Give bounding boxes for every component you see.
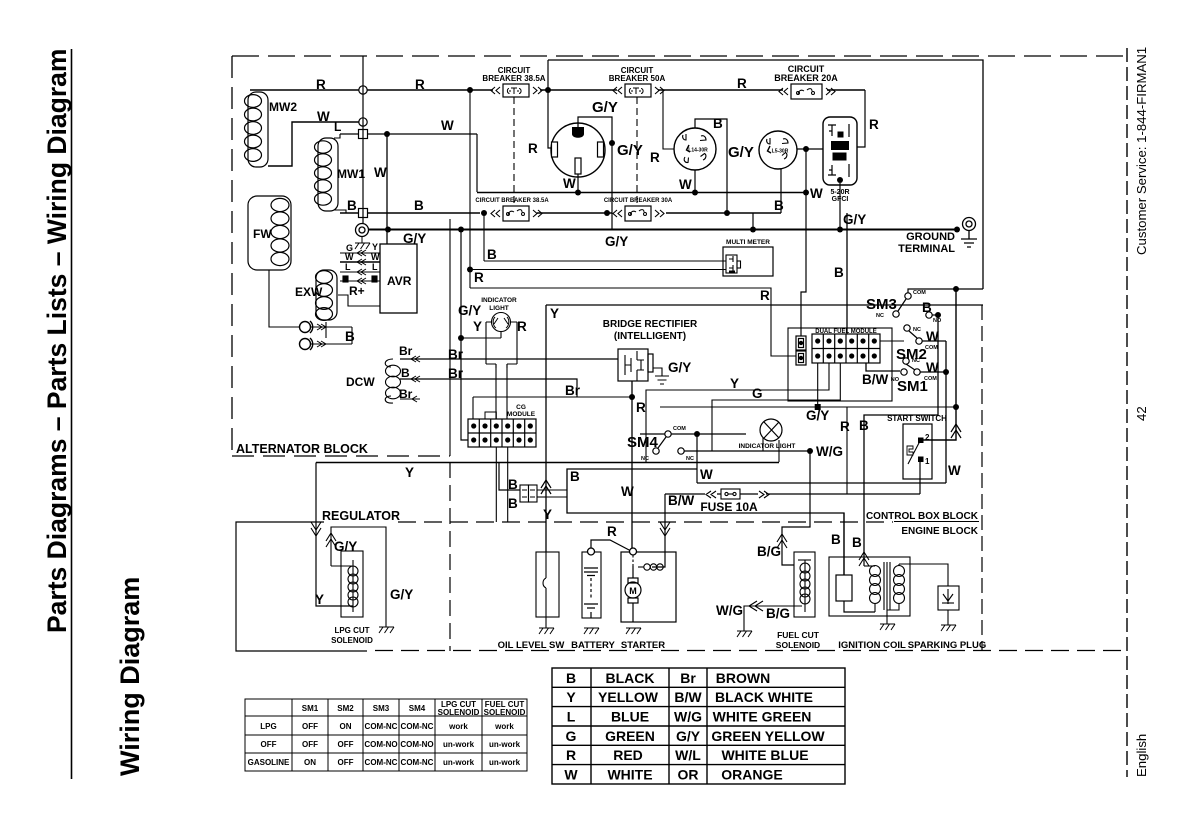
svg-text:GREEN YELLOW: GREEN YELLOW — [711, 728, 825, 744]
outlet L14-30R body — [674, 128, 716, 170]
outlet L5-30R body — [759, 131, 797, 169]
legend letters col2 — [674, 670, 702, 783]
legend table grid — [552, 668, 845, 784]
svg-text:ALTERNATOR BLOCK: ALTERNATOR BLOCK — [236, 442, 368, 456]
right sidebar page number — [1134, 406, 1149, 421]
svg-text:SM2: SM2 — [337, 704, 354, 713]
svg-text:W: W — [441, 118, 454, 133]
fuel cut solenoid coil — [798, 560, 811, 612]
svg-text:G/Y: G/Y — [403, 231, 426, 246]
wire W bus — [477, 192, 806, 194]
wire Y left drop — [315, 463, 317, 600]
chevron bw down — [660, 522, 670, 536]
svg-text:CONTROL BOX BLOCK: CONTROL BOX BLOCK — [866, 511, 979, 522]
chevron wg2 — [749, 601, 763, 611]
junction dot gy5 — [954, 227, 960, 233]
svg-text:YELLOW: YELLOW — [598, 689, 659, 705]
wire R drop from R bus — [469, 90, 471, 288]
svg-text:SM4: SM4 — [409, 704, 426, 713]
fuel cut solenoid box — [794, 552, 815, 617]
svg-text:BREAKER 20A: BREAKER 20A — [774, 73, 838, 83]
AVR pin row W/W — [340, 259, 380, 265]
frame ground symbol — [355, 236, 370, 249]
wire R drop (df right) — [846, 407, 848, 494]
svg-text:COM: COM — [925, 345, 938, 351]
LPG solenoid box — [341, 551, 363, 617]
left sidebar title — [42, 49, 72, 633]
ground symbol battery — [584, 628, 599, 634]
wire SM1 COM to W column — [920, 371, 946, 373]
svg-text:W: W — [564, 767, 578, 783]
svg-text:RED: RED — [613, 747, 643, 763]
svg-text:Y: Y — [372, 242, 378, 252]
wire brush1 stub with chevron — [311, 324, 352, 330]
svg-text:B: B — [713, 116, 723, 131]
junction dot w sm1 — [943, 369, 949, 375]
wire G/Y bus — [368, 229, 957, 231]
ground symbol oil — [539, 628, 554, 634]
svg-text:B: B — [508, 477, 518, 492]
wire ign resistor — [844, 513, 875, 612]
svg-text:GROUND: GROUND — [906, 231, 955, 243]
svg-text:42: 42 — [1134, 406, 1149, 421]
svg-text:B: B — [345, 329, 355, 344]
wire SM3 COM up — [908, 289, 983, 293]
svg-text:LPG CUT: LPG CUT — [334, 626, 369, 635]
wire G/Y from dual fuel — [817, 363, 819, 407]
wire W horizontal to W column — [697, 482, 946, 484]
wire CG bottom drop 2 — [507, 447, 509, 522]
battery cells — [584, 568, 598, 618]
junction dot gy1 — [385, 227, 391, 233]
junction dot ss1 — [953, 286, 959, 292]
wire W MW2 — [268, 122, 359, 166]
wire R to L14-30R — [663, 90, 674, 149]
wire G/Y from GFCI — [839, 183, 841, 229]
wire Br to bridge R node — [473, 396, 632, 398]
svg-text:L14-30R: L14-30R — [688, 148, 708, 154]
junction dot gy4 — [837, 227, 843, 233]
svg-text:Y: Y — [730, 376, 739, 391]
control box label underline — [894, 521, 979, 523]
frame ground circle — [356, 224, 369, 237]
svg-text:G/Y: G/Y — [592, 99, 618, 116]
svg-text:Customer Service: 1-844-FIRMAN: Customer Service: 1-844-FIRMAN1 — [1134, 47, 1149, 255]
ground terminal symbol — [961, 218, 977, 248]
svg-text:B: B — [401, 366, 410, 380]
wire R top loop — [548, 60, 983, 289]
svg-text:G/Y: G/Y — [728, 144, 754, 161]
wire MW1 bottom stub — [334, 210, 346, 213]
wire Y horizontal long — [316, 462, 779, 464]
svg-text:G: G — [566, 728, 577, 744]
right sidebar customer service text — [1134, 47, 1149, 255]
outlet 14-50R bottom slot — [575, 158, 581, 174]
junction dot b bus mid — [604, 210, 610, 216]
outlet 14-50R left slot — [552, 142, 558, 157]
svg-text:GREEN: GREEN — [605, 728, 655, 744]
svg-text:R: R — [474, 270, 484, 285]
junction dot b sm3 — [935, 312, 941, 318]
right sidebar dashed rule — [1126, 48, 1128, 777]
vertical main node column — [362, 56, 364, 223]
svg-text:Y: Y — [473, 319, 482, 334]
legend letters col1 — [564, 670, 578, 783]
svg-text:BATTERY: BATTERY — [571, 640, 615, 651]
wire R bridge to starter — [631, 381, 633, 552]
svg-text:G/Y: G/Y — [334, 539, 357, 554]
multimeter box — [723, 247, 773, 276]
GFCI bottom pin — [837, 177, 843, 183]
svg-text:Parts Diagrams – Parts Lists –: Parts Diagrams – Parts Lists – Wiring Di… — [42, 49, 72, 633]
svg-text:Y: Y — [550, 306, 559, 321]
svg-text:R: R — [760, 288, 770, 303]
wire IL1 tap — [461, 337, 501, 339]
svg-text:W/G: W/G — [674, 709, 702, 725]
engine block bottom dashed border — [375, 650, 1126, 652]
svg-text:G/Y: G/Y — [806, 408, 829, 423]
svg-text:FUSE 10A: FUSE 10A — [700, 500, 758, 514]
starter terminal — [630, 548, 637, 555]
ignition coil box — [829, 557, 910, 616]
CG module pins — [471, 423, 533, 442]
ground symbol wg — [737, 631, 752, 637]
svg-text:INDICATOR: INDICATOR — [481, 297, 517, 304]
junction dot r drop mid — [467, 267, 473, 273]
control box block dashed border — [398, 521, 893, 523]
wire B/W from dual fuel — [866, 363, 900, 371]
svg-text:ORANGE: ORANGE — [721, 767, 782, 783]
SM table header — [302, 700, 526, 717]
svg-text:W: W — [810, 186, 823, 201]
svg-text:NC: NC — [641, 456, 649, 462]
wire L row — [340, 133, 477, 135]
svg-text:FW: FW — [253, 227, 272, 241]
circuit breaker CB3 20A — [779, 84, 835, 99]
svg-text:OFF: OFF — [302, 722, 318, 731]
coil MW1 — [315, 138, 339, 211]
svg-text:B/W: B/W — [668, 493, 695, 508]
svg-text:B: B — [834, 265, 844, 280]
svg-text:W/G: W/G — [716, 603, 743, 618]
svg-text:Y: Y — [315, 592, 324, 607]
svg-text:B: B — [487, 247, 497, 262]
wire R to dual fuel module — [470, 288, 796, 356]
svg-text:R: R — [869, 117, 879, 132]
svg-text:COM: COM — [673, 426, 686, 432]
svg-text:GASOLINE: GASOLINE — [248, 758, 290, 767]
svg-text:W: W — [679, 177, 692, 192]
svg-text:Y: Y — [566, 689, 576, 705]
svg-text:Wiring Diagram: Wiring Diagram — [115, 577, 145, 776]
svg-text:B/G: B/G — [757, 544, 781, 559]
bridge rectifier U1 — [618, 349, 653, 381]
brush ring 1 — [300, 321, 313, 333]
sparking plug box — [938, 586, 959, 610]
svg-text:Y: Y — [405, 465, 414, 480]
wire L5-30R to GFCI — [797, 148, 824, 150]
svg-text:NC: NC — [912, 358, 920, 364]
wire plug ground — [947, 610, 949, 625]
dual fuel module connector — [812, 334, 880, 363]
legend names col2 — [711, 670, 825, 783]
oil level switch contact — [543, 552, 546, 628]
wire B snake — [567, 469, 844, 575]
fuse chevrons — [706, 491, 769, 498]
wire G/Y lpg loop — [331, 527, 386, 627]
start switch terminal 1 — [918, 457, 924, 463]
starter box — [621, 552, 676, 622]
wire brush2 stub with chevron — [311, 341, 352, 347]
wire W from L14-30R — [694, 170, 696, 192]
svg-text:R: R — [737, 76, 747, 91]
svg-text:B: B — [414, 198, 424, 213]
wire SM4 COM rail — [640, 433, 746, 435]
wire IL2 left leg — [762, 438, 764, 451]
wire R to GFCI — [857, 90, 865, 147]
svg-text:B: B — [859, 418, 869, 433]
svg-text:BREAKER 38.5A: BREAKER 38.5A — [482, 74, 545, 83]
svg-text:BLACK WHITE: BLACK WHITE — [715, 689, 813, 705]
svg-text:OFF: OFF — [338, 758, 354, 767]
junction dot w-l1430 — [692, 190, 698, 196]
oil level switch box — [536, 552, 559, 617]
GFCI center pins — [838, 132, 844, 138]
svg-text:W: W — [563, 176, 576, 191]
svg-text:R: R — [840, 419, 850, 434]
outlet L5-30R slots — [767, 138, 788, 159]
junction dot bridge R — [629, 394, 635, 400]
sparking plug electrode — [942, 589, 954, 604]
ground symbol bridge — [655, 376, 669, 384]
indicator light IL2 — [760, 419, 782, 441]
svg-text:un-work: un-work — [443, 758, 475, 767]
svg-text:BREAKER 50A: BREAKER 50A — [609, 74, 666, 83]
svg-text:B/G: B/G — [766, 606, 790, 621]
SM table grid — [245, 699, 527, 771]
junction dot ss2 — [953, 404, 959, 410]
multimeter connector — [726, 255, 741, 273]
SM table row GASOLINE — [248, 758, 521, 767]
battery box — [582, 552, 601, 618]
wire B drop from B bus — [483, 213, 485, 261]
wire W down from L5-30R junction — [801, 149, 806, 336]
wire SM4 com drop — [696, 434, 698, 483]
svg-text:SM1: SM1 — [302, 704, 319, 713]
junction dot r drop top — [467, 87, 473, 93]
svg-text:B: B — [508, 496, 518, 511]
svg-text:1: 1 — [925, 457, 930, 466]
svg-text:CIRCUIT BREAKER 38.5A: CIRCUIT BREAKER 38.5A — [475, 198, 549, 204]
svg-text:CIRCUIT BREAKER 30A: CIRCUIT BREAKER 30A — [604, 198, 673, 204]
svg-text:TERMINAL: TERMINAL — [898, 243, 955, 255]
svg-text:DCW: DCW — [346, 375, 375, 389]
left sidebar subtitle — [115, 577, 145, 776]
wire secondary to plug — [899, 564, 948, 586]
ground symbol plug — [941, 625, 956, 631]
CG module top jog — [485, 412, 496, 419]
switch SM4 — [653, 431, 684, 454]
wire G/Y bridge ground — [653, 368, 662, 376]
start switch key glyph — [907, 446, 913, 455]
svg-text:NC: NC — [913, 327, 921, 333]
svg-text:B: B — [852, 535, 862, 550]
chevron y up — [541, 480, 551, 494]
svg-text:STARTER: STARTER — [621, 640, 665, 651]
svg-text:WHITE BLUE: WHITE BLUE — [721, 747, 808, 763]
svg-text:R: R — [607, 524, 617, 539]
svg-text:B: B — [831, 532, 841, 547]
wire SM2 COM to W column — [922, 340, 946, 342]
svg-text:G/Y: G/Y — [668, 360, 691, 375]
wire W/G down — [782, 451, 810, 565]
svg-text:REGULATOR: REGULATOR — [322, 509, 400, 523]
indicator light IL1 — [486, 313, 517, 369]
wire EXW bottom to brush2 column — [325, 322, 327, 338]
svg-text:English: English — [1134, 734, 1149, 777]
svg-text:L: L — [372, 262, 378, 272]
svg-text:BLUE: BLUE — [611, 709, 649, 725]
GFCI test button — [831, 141, 849, 150]
svg-text:W: W — [317, 109, 330, 124]
svg-text:R: R — [650, 150, 660, 165]
wire B DCW mid — [400, 376, 577, 397]
svg-text:W: W — [948, 463, 961, 478]
wire W column down — [945, 341, 947, 483]
node circle R — [359, 86, 367, 94]
svg-text:R: R — [415, 77, 425, 92]
wire start switch t1 — [919, 462, 921, 494]
junction square gy df — [815, 404, 821, 410]
wire Y from dual fuel — [646, 363, 829, 462]
wire b block drop — [449, 219, 451, 456]
dual fuel left connector — [796, 336, 806, 365]
junction dot w1450 — [575, 190, 581, 196]
svg-text:SM3: SM3 — [373, 704, 390, 713]
wire B bus — [340, 212, 781, 214]
wire B to multimeter — [484, 260, 726, 262]
svg-text:FUEL CUT: FUEL CUT — [777, 630, 820, 640]
wire R+ to AVR — [338, 295, 380, 306]
wire brush taps joining AVR R+ — [351, 327, 353, 344]
svg-text:COM: COM — [913, 290, 926, 296]
left sidebar rule — [71, 49, 73, 779]
battery terminal — [588, 548, 595, 555]
AVR pin row L/L — [340, 269, 380, 275]
junction dot b bus l1430 — [724, 210, 730, 216]
alternator block bottom dashed border — [232, 455, 450, 457]
svg-text:W: W — [371, 252, 380, 262]
svg-text:CG: CG — [516, 404, 526, 411]
wire B conn top — [499, 462, 520, 490]
svg-text:W: W — [345, 252, 354, 262]
ignition primary coil — [864, 566, 881, 613]
svg-text:R+: R+ — [349, 284, 365, 298]
diagram top dashed border — [232, 55, 1126, 57]
svg-text:WHITE GREEN: WHITE GREEN — [713, 709, 812, 725]
coil FW — [248, 196, 291, 270]
junction dot sm4 — [694, 431, 700, 437]
wire Br drop to CG pin — [472, 397, 474, 425]
wire ign ground — [886, 610, 888, 624]
svg-text:B/W: B/W — [862, 372, 889, 387]
outlet L14-30R slots — [683, 134, 706, 163]
wire G from dual fuel — [712, 363, 840, 451]
svg-text:BLACK: BLACK — [606, 670, 655, 686]
wire B from L14-30R — [695, 119, 727, 213]
svg-text:COM-NC: COM-NC — [401, 758, 434, 767]
AVR box — [380, 244, 417, 313]
svg-text:NC: NC — [876, 313, 884, 319]
junction dot gy2 — [458, 227, 464, 233]
ground symbol starter — [626, 628, 641, 634]
AVR pin row G/Y — [340, 250, 380, 256]
svg-text:Br: Br — [565, 383, 581, 398]
svg-text:Br: Br — [399, 344, 413, 358]
circuit breaker CB4 38.5A — [491, 206, 542, 221]
dual fuel module outline — [788, 328, 892, 401]
node square L — [359, 130, 368, 139]
svg-text:R: R — [528, 141, 538, 156]
wire Y conn stub — [537, 496, 546, 498]
coil DCW — [385, 359, 400, 403]
outlet 14-50R body — [551, 123, 605, 177]
svg-text:OFF: OFF — [338, 740, 354, 749]
svg-text:L: L — [345, 262, 351, 272]
wire SM4 NC2 to WG dot — [684, 450, 810, 452]
GFCI reset button — [833, 153, 847, 161]
svg-text:SM3: SM3 — [866, 296, 897, 313]
engine block right dashed border — [981, 305, 983, 650]
svg-text:LPG: LPG — [260, 722, 276, 731]
svg-text:SOLENOID: SOLENOID — [438, 708, 480, 717]
svg-text:W/L: W/L — [675, 747, 701, 763]
SM table row LPG — [260, 722, 514, 731]
wire IL1 legs to CG — [496, 364, 507, 421]
svg-text:R: R — [636, 400, 646, 415]
svg-text:OFF: OFF — [261, 740, 277, 749]
svg-text:W: W — [374, 165, 387, 180]
svg-text:IGNITION COIL: IGNITION COIL — [838, 640, 906, 651]
coil MW2 — [245, 92, 269, 167]
wire G/Y to 14-50R — [578, 117, 612, 229]
brush ring 2 — [300, 338, 313, 350]
svg-text:R: R — [316, 77, 326, 92]
switch SM1 — [901, 358, 920, 375]
svg-text:COM-NC: COM-NC — [401, 722, 434, 731]
ignition core — [884, 562, 890, 610]
circuit breaker CB5 30A — [613, 206, 664, 221]
svg-text:INDICATOR LIGHT: INDICATOR LIGHT — [739, 443, 796, 450]
junction dot wg — [807, 448, 813, 454]
GFCI body — [823, 117, 857, 185]
svg-text:BROWN: BROWN — [716, 670, 770, 686]
wire R to multimeter — [470, 269, 726, 271]
chevron reg up — [326, 533, 336, 547]
svg-text:START SWITCH: START SWITCH — [887, 414, 947, 423]
svg-text:un-work: un-work — [443, 740, 475, 749]
SM table row OFF — [261, 740, 521, 749]
svg-text:G: G — [752, 386, 763, 401]
circuit breaker CB1 38.5A — [491, 84, 542, 97]
svg-text:G/Y: G/Y — [676, 728, 701, 744]
svg-text:W: W — [700, 467, 713, 482]
junction dot r1450 — [545, 87, 551, 93]
CG module connector — [468, 419, 536, 447]
svg-text:(INTELLIGENT): (INTELLIGENT) — [614, 331, 686, 342]
wire W column to AVR — [386, 134, 388, 244]
starter motor — [625, 566, 641, 622]
